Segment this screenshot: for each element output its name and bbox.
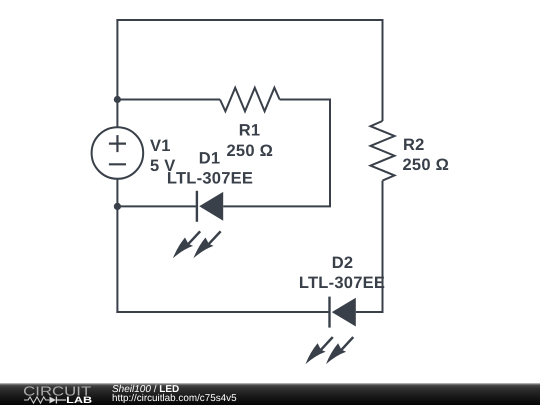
wire top — [117, 19, 383, 20]
svg-text:250 Ω: 250 Ω — [403, 156, 450, 174]
svg-text:LAB: LAB — [66, 395, 92, 405]
wire D2 anode to right column — [356, 311, 384, 313]
node B junction dot — [114, 203, 121, 210]
voltage source V1 — [92, 127, 144, 179]
wire left upper (top corner to V1 plus) — [116, 19, 118, 128]
svg-text:D1: D1 — [199, 150, 221, 168]
wire bottom (to D2 cathode) — [116, 311, 329, 313]
LED D1 — [173, 191, 223, 258]
svg-text:V1: V1 — [150, 137, 171, 155]
wire node B to D1 cathode — [117, 205, 196, 207]
svg-text:R1: R1 — [239, 122, 261, 140]
wire R1 right down to D1 anode — [223, 100, 330, 207]
footer bar — [0, 383, 540, 405]
svg-text:LTL-307EE: LTL-307EE — [299, 274, 385, 292]
svg-text:250 Ω: 250 Ω — [227, 142, 274, 160]
wire right lower (R2 bottom to bottom corner) — [382, 181, 384, 313]
svg-text:D2: D2 — [332, 254, 354, 272]
svg-text:http://circuitlab.com/c75s4v5: http://circuitlab.com/c75s4v5 — [112, 393, 237, 404]
resistor R2 — [371, 121, 395, 181]
LED D2 — [306, 297, 356, 365]
node A junction dot — [114, 96, 121, 103]
wire left lower (V1 minus to bottom corner) — [116, 178, 118, 313]
resistor R1 — [220, 88, 280, 112]
logo resistor symbol — [24, 397, 49, 403]
wire node A to R1 left — [117, 99, 220, 101]
wire right upper (to R2 top) — [382, 19, 384, 121]
logo diode symbol — [50, 397, 67, 404]
svg-text:R2: R2 — [403, 136, 425, 154]
svg-text:LTL-307EE: LTL-307EE — [167, 170, 253, 188]
